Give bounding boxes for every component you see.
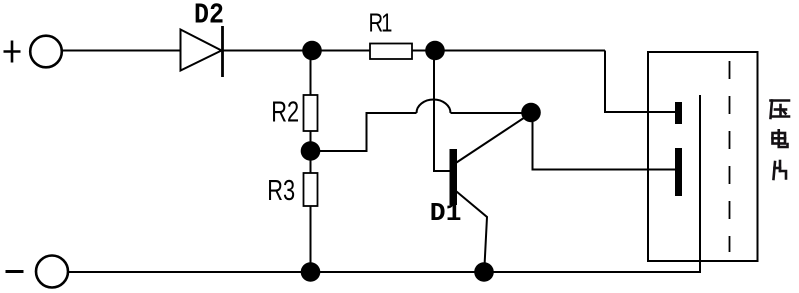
svg-text:D1: D1 [430,198,462,228]
svg-text:D2: D2 [194,0,224,32]
svg-text:R3: R3 [267,175,295,206]
svg-text:R2: R2 [271,97,299,128]
svg-text:R1: R1 [369,8,392,37]
